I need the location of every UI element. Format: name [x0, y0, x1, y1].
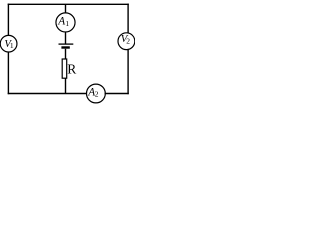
- wire battery to resistor: [65, 49, 67, 59]
- battery cell positive plate: [59, 43, 74, 45]
- svg-text:R: R: [67, 61, 76, 76]
- svg-text:1: 1: [10, 41, 14, 50]
- wire bottom side left segment: [8, 93, 86, 95]
- wire right side upper segment: [127, 4, 129, 33]
- wire top side: [8, 3, 128, 5]
- battery cell negative plate: [61, 46, 69, 48]
- wire right side lower segment: [127, 50, 129, 94]
- ammeter A2: [87, 84, 106, 103]
- svg-text:2: 2: [95, 90, 99, 99]
- svg-text:2: 2: [126, 36, 130, 45]
- wire stub from top side to A1: [65, 4, 67, 13]
- ammeter A1: [56, 13, 75, 32]
- svg-text:1: 1: [65, 19, 69, 28]
- wire bottom side right segment: [105, 93, 128, 95]
- wire A1 to battery: [65, 32, 67, 44]
- wire left side lower segment: [7, 52, 9, 93]
- wire resistor to bottom side: [65, 78, 67, 93]
- voltmeter V1: [0, 35, 17, 52]
- voltmeter V2: [118, 33, 135, 50]
- wire left side upper segment: [7, 4, 9, 35]
- svg-text:A: A: [57, 15, 65, 27]
- resistor R: [62, 59, 76, 78]
